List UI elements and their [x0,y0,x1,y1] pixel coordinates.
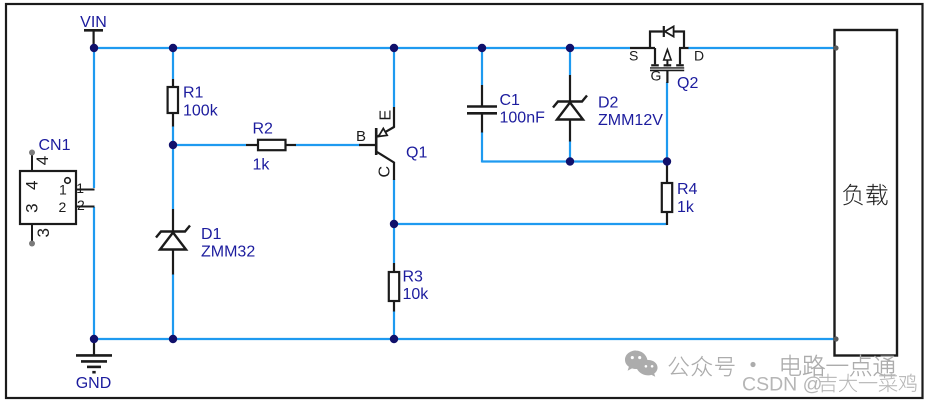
CN1 pin2 lead [76,206,95,208]
svg-text:2: 2 [77,197,85,213]
Q2 drain contact bar [676,64,684,66]
svg-text:4: 4 [33,156,52,165]
Q1 base bar [375,128,378,155]
Q2 body diode loop [650,32,684,49]
svg-text:Q1: Q1 [406,145,427,162]
svg-text:100k: 100k [183,103,219,120]
connector CN1 [20,171,76,224]
junction gate net D2 [566,157,574,165]
CN1 pin3 lead [31,224,33,243]
load block 负载 [835,30,898,356]
svg-text:R2: R2 [253,121,274,138]
junction ground rail left [90,335,98,343]
wire D1 anode to ground rail [172,274,174,340]
wire top rail from Q2 drain to load [688,47,836,49]
watermark text 吉大一菜鸡 [819,374,916,392]
wire Q1 collector to node B [393,179,395,225]
svg-text:1k: 1k [253,157,271,174]
transistor Q1 PNP [393,107,395,127]
Q2 body diode cathode bar [663,26,665,37]
power symbol VIN [84,29,103,32]
wire left rail VIN down to CN1 pin1 [93,47,95,188]
watermark text 公众号 [669,356,734,376]
Q2 body diode triangle [665,26,674,36]
wire node B to R4 bottom [394,223,667,225]
wire R3 to ground rail [393,311,395,340]
Q1 collector diagonal [376,152,394,163]
wire Q2 gate down to gate net [666,82,668,162]
Q2 drain contact leg [679,48,681,64]
svg-text:E: E [378,110,395,121]
svg-text:CSDN @: CSDN @ [742,374,822,396]
svg-text:R1: R1 [183,85,204,102]
junction top rail Q1 [390,44,398,52]
load text 负载 [843,184,887,205]
wire R2 to Q1 base [296,144,361,146]
resistor R3 [393,263,395,273]
Q1 emitter arrowhead [379,128,388,136]
Q1 base lead [359,144,376,146]
Q2 channel line [650,67,684,69]
svg-text:CN1: CN1 [39,137,71,154]
Q2 source contact bar [651,64,659,66]
wire top rail to D2 [569,48,571,75]
svg-text:3: 3 [34,228,53,237]
junction top rail D2 [566,44,574,52]
Q2 source pin [630,47,655,49]
zener diode D1 [172,209,174,231]
svg-text:D1: D1 [201,226,222,243]
junction node B [390,220,398,228]
Q2 gate line [650,69,684,71]
svg-text:1: 1 [76,180,84,196]
resistor R4 [662,183,672,212]
Q2 source contact leg [654,48,656,64]
Q2 substrate arrow [666,52,668,67]
junction top rail C1 [478,44,486,52]
svg-text:B: B [356,128,366,145]
watermark wechat icon [625,351,658,377]
CN1 pin3 end dot [29,241,35,247]
C1 top plate [467,105,497,108]
wire bottom ground rail [93,338,836,340]
svg-text:Q2: Q2 [677,75,698,92]
Q2 drain pin [679,47,689,49]
watermark separator dot [750,362,755,367]
svg-text:GND: GND [76,375,112,392]
CN1 pin4 lead [31,153,33,171]
Q2 gate lead [666,71,668,83]
svg-text:VIN: VIN [80,14,107,31]
svg-text:C1: C1 [500,92,521,109]
load bottom pin dot [833,336,838,341]
ground symbol [93,339,95,355]
svg-text:3: 3 [22,203,41,212]
svg-text:D: D [694,48,704,64]
svg-text:1k: 1k [677,199,695,216]
svg-text:4: 4 [22,181,41,190]
svg-text:1: 1 [59,182,67,198]
C1 bottom plate [467,112,497,115]
svg-text:R3: R3 [403,269,424,286]
CN1 pin4 end dot [29,150,35,156]
svg-text:2: 2 [59,199,67,215]
junction ground rail D1 [169,335,177,343]
load top pin dot [833,45,838,50]
svg-text:C: C [377,166,394,178]
wire top rail to C1 [481,48,483,85]
wire C1 bottom down [481,132,483,163]
junction ground rail R3 [390,335,398,343]
svg-text:G: G [651,68,662,84]
wire top rail to Q1 emitter [393,48,395,107]
junction VIN corner [90,44,98,52]
CN1 pin1 marker ring [65,178,71,184]
CN1 pin1 lead [76,189,95,191]
svg-text:ZMM12V: ZMM12V [598,112,663,129]
svg-text:100nF: 100nF [500,110,546,127]
capacitor C1 [481,85,483,106]
wire R1 to node A [172,126,174,146]
resistor R1 [172,79,174,88]
svg-text:10k: 10k [403,286,430,303]
junction gate net R4 [663,157,671,165]
wire CN1 pin2 down to ground rail [93,207,95,339]
junction top rail R1 [169,44,177,52]
wire gate net to R4 top lead [666,162,668,184]
wire gate net horizontal [482,160,667,162]
wire D2 anode to gate net [569,141,571,162]
wire node A to R2 [173,144,246,146]
wire node A down to D1 [172,145,174,209]
resistor R2 [246,144,259,146]
junction node A [169,141,177,149]
zener diode D2 [569,75,571,101]
watermark text 电路一点通 [782,355,895,376]
R4 bottom lead [666,212,668,225]
wire node B down to R3 [393,224,395,263]
svg-text:ZMM32: ZMM32 [201,244,255,261]
svg-text:D2: D2 [598,95,619,112]
Q2 body contact bar [664,64,672,66]
svg-text:S: S [629,48,638,64]
wire VIN top rail left of Q2 [94,47,630,49]
wire top rail to R1 [172,48,174,79]
svg-text:R4: R4 [677,181,698,198]
